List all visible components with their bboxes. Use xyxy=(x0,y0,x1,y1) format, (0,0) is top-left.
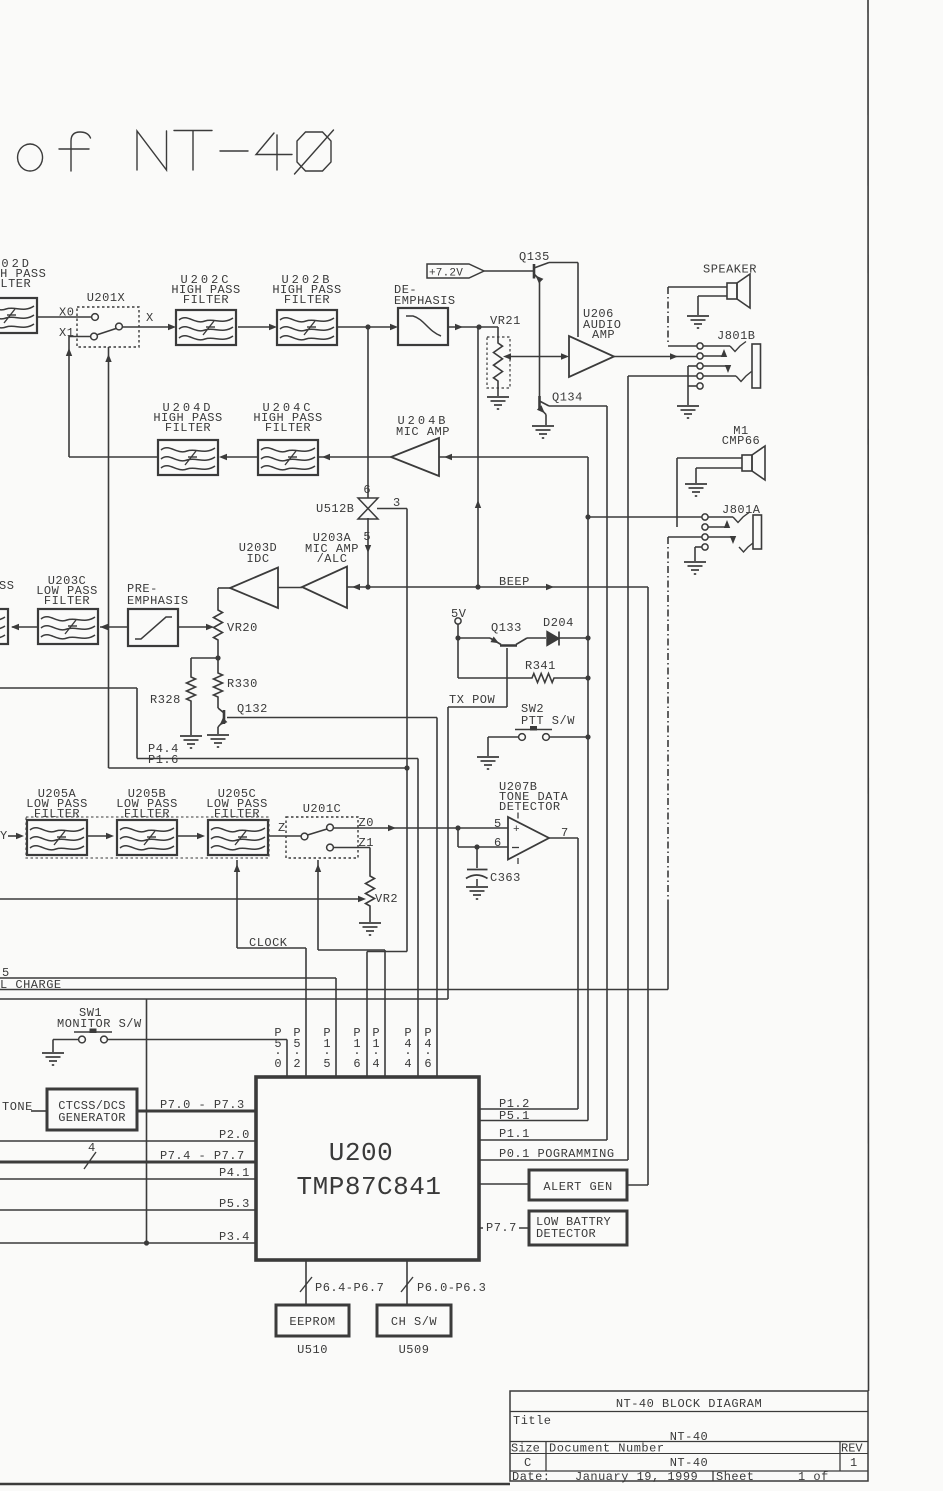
wire J801A pin3 arm xyxy=(708,536,733,538)
junction de-emphasis riser at BEEP xyxy=(475,584,480,589)
wire riser from TX POW rail to P3.4 xyxy=(146,999,148,1243)
svg-text:Q132: Q132 xyxy=(237,702,268,716)
wire P1.1 to bundle xyxy=(479,1139,607,1141)
wire J801A pin1 contact xyxy=(708,516,733,518)
title block frame xyxy=(510,1391,868,1481)
svg-text:/ALC: /ALC xyxy=(317,552,348,566)
wire X1 contact to riser xyxy=(69,336,91,338)
svg-text:P1.6: P1.6 xyxy=(148,753,179,767)
svg-text:Document Number: Document Number xyxy=(549,1442,665,1456)
svg-text:4: 4 xyxy=(372,1057,379,1071)
svg-text:Date:: Date: xyxy=(512,1470,551,1484)
svg-text:GENERATOR: GENERATOR xyxy=(58,1111,126,1125)
wire J801A pin3 shield (dash-dot to full-charge rail) xyxy=(668,536,702,538)
svg-text:FILTER: FILTER xyxy=(44,594,90,608)
wire U201X pole to U202C, node X xyxy=(123,326,173,328)
wire SW2 right to bundle xyxy=(550,736,589,738)
wire J801B pin2 normally-closed arm xyxy=(703,355,724,357)
wire Q133 base down to TX POW xyxy=(506,648,508,707)
svg-text:CMP66: CMP66 xyxy=(722,434,761,448)
wire Q135 collector to U206 top xyxy=(549,262,578,264)
svg-text:X: X xyxy=(146,311,154,325)
wire elbow down to VR21 top xyxy=(497,327,499,339)
block CH S/W U509 xyxy=(377,1305,451,1336)
wire U203D out to VR20 xyxy=(218,587,230,589)
svg-text:MIC AMP: MIC AMP xyxy=(396,425,450,439)
potentiometer VR21 xyxy=(487,337,510,388)
wire 5V branch down to R341 xyxy=(457,638,459,678)
ground below Q134 xyxy=(532,425,554,427)
svg-text:U200: U200 xyxy=(329,1138,393,1168)
analog switch U201X xyxy=(77,307,139,347)
svg-text:NT-40: NT-40 xyxy=(670,1456,709,1470)
wire TX POW rail from left edge xyxy=(0,998,448,1000)
svg-text:FILTER: FILTER xyxy=(214,807,260,821)
svg-text:P6.0-P6.3: P6.0-P6.3 xyxy=(417,1281,486,1295)
wire U202B junction down through U512B xyxy=(367,327,369,498)
wire U204B input from J801A mic line xyxy=(439,456,588,458)
svg-text:.: . xyxy=(293,1044,300,1058)
svg-text:.: . xyxy=(424,1044,431,1058)
wire Q134 emitter to ground xyxy=(545,415,547,426)
svg-text:VR2: VR2 xyxy=(375,892,398,906)
junction after U202B xyxy=(365,324,370,329)
svg-text:P1.1: P1.1 xyxy=(499,1127,530,1141)
svg-text:ALERT GEN: ALERT GEN xyxy=(543,1180,612,1194)
bus width slash 4 xyxy=(84,1152,96,1169)
filter U202C xyxy=(176,310,236,345)
bus P7.4 - P7.7 from left edge xyxy=(0,1161,256,1164)
svg-text:Title: Title xyxy=(513,1414,552,1428)
svg-text:P3.4: P3.4 xyxy=(219,1230,250,1244)
junction riser at P3.4 xyxy=(144,1240,149,1245)
svg-text:FILTER: FILTER xyxy=(0,277,31,291)
svg-text:Z: Z xyxy=(278,821,286,835)
pre-emphasis block xyxy=(128,609,178,646)
wire P5.1 to bundle xyxy=(479,1120,588,1122)
svg-text:+7.2V: +7.2V xyxy=(429,268,463,280)
wire P4.4 from left edge xyxy=(0,687,137,689)
svg-text:P6.4-P6.7: P6.4-P6.7 xyxy=(315,1281,384,1295)
filter U203C xyxy=(38,609,98,644)
wire U203C out to left (cut filter) xyxy=(12,626,38,628)
dotted group frame around U205 filters xyxy=(26,817,269,858)
svg-text:U509: U509 xyxy=(399,1343,430,1357)
wire J801B pin4 to programming bundle (down to P0.1) xyxy=(628,375,697,377)
junction BEEP line below U512B xyxy=(365,584,370,589)
ground below SW1 xyxy=(42,1052,64,1054)
svg-text:P2.0: P2.0 xyxy=(219,1128,250,1142)
op-amp U203A mic amp/alc xyxy=(302,567,347,609)
wire riser from de-emphasis junction xyxy=(477,327,479,587)
wire Q134 collector right and down the bundle to P1.1 xyxy=(549,405,607,407)
wire U204D out up to U201X X1 xyxy=(69,456,158,458)
wire Q133 collector to D204 xyxy=(527,637,546,639)
svg-text:.: . xyxy=(353,1044,360,1058)
ground below M1 xyxy=(685,483,707,485)
svg-text:SS: SS xyxy=(0,579,14,593)
ground below C363 xyxy=(466,886,488,888)
svg-text:.: . xyxy=(372,1044,379,1058)
junction after de-emphasis xyxy=(476,324,481,329)
svg-text:X0: X0 xyxy=(59,306,74,320)
wire U205C to U201C, node Z xyxy=(268,835,301,837)
wire J801B pin1 contact xyxy=(668,345,697,347)
wire SW2 left to ground xyxy=(488,736,519,738)
junction 5V xyxy=(455,635,460,640)
svg-text:1 of: 1 of xyxy=(798,1470,829,1484)
wire M1 - to ground xyxy=(696,467,742,469)
wire TONE to CTCSS generator xyxy=(31,1110,47,1112)
wire U205A to U205B xyxy=(87,835,111,837)
wire U205B to U205C xyxy=(177,835,202,837)
wire TX POW xyxy=(448,706,507,708)
svg-text:FILTER: FILTER xyxy=(265,421,311,435)
wire P2.0 from left edge xyxy=(0,1140,256,1142)
svg-text:NT-40: NT-40 xyxy=(670,1430,709,1444)
wire P1.2 to bundle xyxy=(479,1108,578,1110)
filter U205C low pass xyxy=(208,820,268,855)
wire U207B pin6 branch xyxy=(457,828,459,847)
sheet right border xyxy=(867,0,870,1391)
wire VR20 wiper from pre-emphasis xyxy=(178,626,209,628)
svg-text:FILTER: FILTER xyxy=(284,293,330,307)
wire speaker - to ground xyxy=(698,295,727,297)
wire P7.7 to low battery detector xyxy=(479,1227,529,1229)
wire de-emphasis to VR21 xyxy=(448,326,498,328)
filter U202D (cut at left edge) xyxy=(0,298,37,333)
svg-text:U510: U510 xyxy=(297,1343,328,1357)
svg-text:Y: Y xyxy=(0,829,8,843)
svg-text:PTT S/W: PTT S/W xyxy=(521,714,575,728)
svg-text:5: 5 xyxy=(363,530,370,544)
svg-text:BEEP: BEEP xyxy=(499,575,530,589)
ground below Q132 xyxy=(207,734,229,736)
svg-text:FILTER: FILTER xyxy=(34,807,80,821)
svg-text:X1: X1 xyxy=(59,326,74,340)
wire VR2 bottom to ground xyxy=(369,910,371,922)
analog switch U201C xyxy=(286,817,358,858)
filter U204D xyxy=(158,440,218,475)
power flag +7.2V xyxy=(427,264,484,278)
svg-text:4: 4 xyxy=(88,1141,96,1155)
wire D204 to bundle xyxy=(559,637,588,639)
filter U202B xyxy=(277,310,337,345)
svg-text:1: 1 xyxy=(850,1456,858,1470)
wire VR21 wiper to U206 input xyxy=(506,356,565,358)
wire M1 + to J801A pin2 xyxy=(677,457,742,459)
wire CLOCK column down to U200 P5.2 xyxy=(305,948,307,1077)
wire SW1 right to U200 P5.0 xyxy=(108,1039,288,1041)
wire J801B pin3 to ground tie xyxy=(688,365,697,367)
block EEPROM U510 xyxy=(276,1305,349,1336)
block CTCSS/DCS generator xyxy=(47,1089,137,1130)
svg-text:IDC: IDC xyxy=(246,552,269,566)
svg-text:Q134: Q134 xyxy=(552,391,583,405)
svg-text:CH S/W: CH S/W xyxy=(391,1315,438,1329)
op-amp U206 audio amp xyxy=(569,336,614,377)
svg-text:FILTER: FILTER xyxy=(183,293,229,307)
wire U204B output to U204C xyxy=(318,456,391,458)
wire Q135 emitter down to Q134 xyxy=(539,280,541,396)
svg-text:P4.1: P4.1 xyxy=(219,1166,250,1180)
wire pin3 line continues down to jog xyxy=(406,768,408,952)
svg-text:R330: R330 xyxy=(227,677,258,691)
svg-text:4: 4 xyxy=(404,1057,411,1071)
svg-text:EMPHASIS: EMPHASIS xyxy=(127,594,189,608)
wire mic riser down the bundle to P5.1 xyxy=(587,457,589,1121)
microcontroller U200 TMP87C841 xyxy=(256,1077,479,1260)
wire VR2 wiper rail from left edge xyxy=(0,898,362,900)
svg-text:0: 0 xyxy=(274,1057,281,1071)
wire VR21 bottom to ground xyxy=(497,385,499,396)
wire +7.2V to Q135 base xyxy=(484,270,533,272)
svg-text:Q133: Q133 xyxy=(491,621,522,635)
svg-text:P7.7: P7.7 xyxy=(486,1221,517,1235)
block ALERT GEN xyxy=(479,1183,529,1185)
de-emphasis block xyxy=(398,308,448,345)
wire U202B to de-emphasis xyxy=(338,326,394,328)
junction mic line to J801A pin1 xyxy=(585,514,590,519)
ground below VR21 xyxy=(487,396,509,398)
svg-text:P0.1 POGRAMMING: P0.1 POGRAMMING xyxy=(499,1147,615,1161)
svg-text:EMPHASIS: EMPHASIS xyxy=(394,294,456,308)
svg-text:FILTER: FILTER xyxy=(124,807,170,821)
svg-text:TONE: TONE xyxy=(2,1100,33,1114)
filter U205B low pass xyxy=(117,820,177,855)
svg-text:C363: C363 xyxy=(490,871,521,885)
svg-text:D204: D204 xyxy=(543,616,574,630)
wire J801B pin5 to ground xyxy=(688,385,697,387)
resistor R330 xyxy=(217,658,219,669)
wire U206 output to J801B pin2 xyxy=(614,356,697,358)
svg-text:7: 7 xyxy=(561,826,568,840)
svg-text:January 19, 1999: January 19, 1999 xyxy=(575,1470,698,1484)
svg-text:.: . xyxy=(404,1044,411,1058)
wire Z0 to U207B pin5 xyxy=(334,827,509,829)
ground below SW2 xyxy=(477,756,499,758)
wire U204C to U204D xyxy=(222,456,258,458)
svg-text:5: 5 xyxy=(323,1057,330,1071)
svg-text:6: 6 xyxy=(494,836,501,850)
svg-text:CLOCK: CLOCK xyxy=(249,936,288,950)
svg-text:Sheet: Sheet xyxy=(716,1470,755,1484)
svg-text:.: . xyxy=(274,1044,281,1058)
wire J801A pin4 to ground xyxy=(695,546,702,548)
wire TX POW riser from left rail xyxy=(447,707,449,999)
resistor R328 xyxy=(191,657,218,659)
wire P1.6 column down to U200 xyxy=(366,952,368,1078)
potentiometer VR2 xyxy=(366,872,375,910)
wire P4.4 column down to U200 xyxy=(417,759,419,1078)
wire riser down to P4.6 column xyxy=(436,718,438,1078)
wire U512B pin3 down to P1.6 row xyxy=(377,508,407,510)
wire U200 to CH S/W bus P6.0-P6.3 xyxy=(406,1260,408,1305)
svg-text:6: 6 xyxy=(363,483,370,497)
svg-text:6: 6 xyxy=(424,1057,431,1071)
wire P1.6 from U201X control down and right xyxy=(108,347,110,768)
ground below J801A xyxy=(684,561,706,563)
ground below speaker xyxy=(687,315,709,317)
svg-text:DETECTOR: DETECTOR xyxy=(536,1227,596,1241)
wire Q132 base from TX POW riser xyxy=(227,717,437,719)
svg-text:REV: REV xyxy=(841,1442,863,1456)
wire U200 to EEPROM bus P6.4-P6.7 xyxy=(305,1260,307,1305)
junction R341 at bundle xyxy=(585,675,590,680)
svg-text:EEPROM: EEPROM xyxy=(289,1315,335,1329)
wire pre-emphasis to U203C xyxy=(100,626,128,628)
ground below R328 xyxy=(180,735,202,737)
op-amp U204B mic amp xyxy=(391,438,439,476)
wire U205C control from CLOCK xyxy=(236,860,238,948)
potentiometer VR20 xyxy=(214,606,223,644)
filter U205A low pass xyxy=(27,820,87,855)
svg-text:NT-40 BLOCK DIAGRAM: NT-40 BLOCK DIAGRAM xyxy=(616,1397,762,1411)
svg-text:AMP: AMP xyxy=(592,328,615,342)
filter at left edge (cut) xyxy=(0,609,8,644)
svg-text:5: 5 xyxy=(494,817,501,831)
op-amp U203D IDC xyxy=(230,568,278,609)
block LOW BATTRY DETECTOR xyxy=(529,1211,627,1245)
svg-text:6: 6 xyxy=(353,1057,360,1071)
wire J801A pin2 arm xyxy=(708,526,727,528)
ground below VR2 xyxy=(359,922,381,924)
filter U204C xyxy=(258,440,318,475)
wire into U203A xyxy=(347,586,368,588)
junction pin3 line at P1.6 wire xyxy=(404,765,409,770)
wire U202D out to X0 xyxy=(37,316,91,318)
svg-text:P7.4 - P7.7: P7.4 - P7.7 xyxy=(160,1149,245,1163)
wire VR20 bottom junction xyxy=(217,644,219,658)
svg-text:+: + xyxy=(513,824,520,836)
wire pin7 down bundle to P1.2 xyxy=(577,838,579,1109)
svg-text:P5.3: P5.3 xyxy=(219,1197,250,1211)
junction D204 at bundle xyxy=(585,635,590,640)
wire SW1 left to ground xyxy=(53,1039,79,1041)
wire U201C control column xyxy=(317,860,319,950)
wire J801B pin3 arm xyxy=(703,365,728,367)
svg-text:J801B: J801B xyxy=(717,329,756,343)
wire J801B pin4 contact xyxy=(703,375,736,377)
svg-text:DETECTOR: DETECTOR xyxy=(499,800,561,814)
svg-text:R341: R341 xyxy=(525,659,556,673)
wire P4.1 from left edge xyxy=(0,1178,256,1180)
wire Z1 to VR2 xyxy=(334,847,371,849)
wire ALERT GEN output up to BEEP xyxy=(627,1184,648,1186)
wire BEEP down bundle to alert gen output xyxy=(647,587,649,1185)
svg-text:Q135: Q135 xyxy=(519,250,550,264)
svg-text:VR21: VR21 xyxy=(490,314,521,328)
junction pin5 wire xyxy=(455,825,460,830)
svg-text:U201X: U201X xyxy=(87,291,126,305)
svg-text:P5.1: P5.1 xyxy=(499,1109,530,1123)
svg-text:VR20: VR20 xyxy=(227,621,258,635)
resistor R341 xyxy=(458,677,528,679)
svg-text:Size: Size xyxy=(511,1442,540,1456)
wire U207B output pin7 xyxy=(549,837,578,839)
svg-text:MONITOR S/W: MONITOR S/W xyxy=(57,1017,142,1031)
svg-text:C: C xyxy=(524,1456,532,1470)
wire to J801A pin1 xyxy=(588,516,702,518)
bus CTCSS to U200 P7.0 - P7.3 xyxy=(137,1110,256,1113)
wire P3.4 from left edge xyxy=(0,1242,256,1244)
svg-text:TX POW: TX POW xyxy=(449,693,496,707)
svg-text:U512B: U512B xyxy=(316,502,355,516)
wire P0.1 programming to bundle xyxy=(479,1159,628,1161)
wire Y into U205A xyxy=(8,835,21,837)
wire U203A to U203D xyxy=(278,587,302,589)
capacitor C363 xyxy=(476,847,478,868)
junction SW2 at bundle xyxy=(585,734,590,739)
svg-text:2: 2 xyxy=(293,1057,300,1071)
svg-text:FILTER: FILTER xyxy=(165,421,211,435)
svg-text:TMP87C841: TMP87C841 xyxy=(297,1172,442,1202)
ground below J801B xyxy=(677,405,699,407)
wire BEEP line xyxy=(368,586,648,588)
svg-text:.: . xyxy=(323,1044,330,1058)
svg-text:P7.0 - P7.3: P7.0 - P7.3 xyxy=(160,1098,245,1112)
wire speaker + to J801B pin1 (dash-dot) xyxy=(668,286,727,288)
sheet title text: of NT-40 (plotter strokes) xyxy=(18,130,334,174)
svg-text:U201C: U201C xyxy=(303,802,342,816)
wire U202C to U202B xyxy=(238,326,273,328)
svg-text:R328: R328 xyxy=(150,693,181,707)
sheet bottom border xyxy=(0,1483,510,1485)
junction pin6 wire at C363 xyxy=(474,844,479,849)
wire P5.3 from left edge xyxy=(0,1209,256,1211)
